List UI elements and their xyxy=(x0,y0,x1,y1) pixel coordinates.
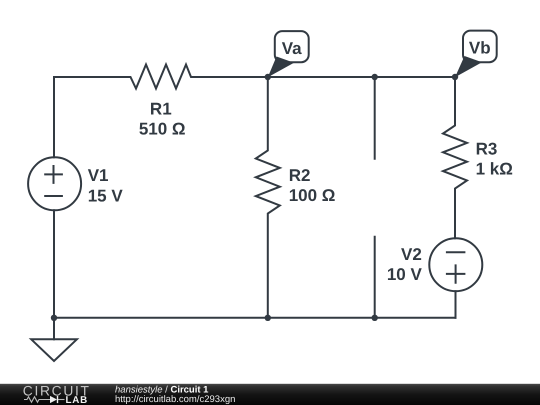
svg-text:V2: V2 xyxy=(401,245,422,264)
svg-text:510 Ω: 510 Ω xyxy=(139,120,186,139)
svg-text:100 Ω: 100 Ω xyxy=(289,186,336,205)
svg-text:Va: Va xyxy=(282,39,302,58)
svg-text:1 kΩ: 1 kΩ xyxy=(476,159,513,178)
svg-text:R1: R1 xyxy=(150,99,172,118)
svg-text:15 V: 15 V xyxy=(88,186,124,205)
svg-text:10 V: 10 V xyxy=(387,265,423,284)
svg-text:V1: V1 xyxy=(88,166,109,185)
svg-text:http://circuitlab.com/c293xgn: http://circuitlab.com/c293xgn xyxy=(115,394,235,405)
svg-text:R2: R2 xyxy=(289,166,311,185)
svg-text:Vb: Vb xyxy=(469,39,491,58)
svg-text:R3: R3 xyxy=(476,139,498,158)
svg-text:LAB: LAB xyxy=(66,395,89,405)
